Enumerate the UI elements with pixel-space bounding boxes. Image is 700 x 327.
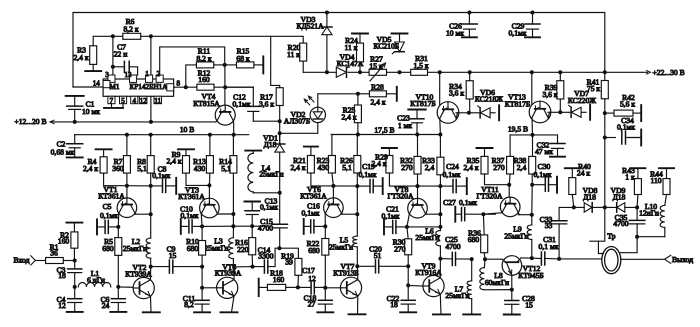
svg-text:15: 15 [525, 300, 533, 309]
label +22...30V [646, 71, 650, 75]
node VT9 base [406, 283, 410, 287]
svg-text:0,1мк: 0,1мк [181, 211, 199, 220]
svg-text:680: 680 [102, 244, 114, 253]
svg-text:Д18: Д18 [583, 192, 596, 201]
wire VT3 emitter [200, 214, 203, 227]
svg-text:2,4 к: 2,4 к [371, 159, 386, 168]
wire VT4 emitter [216, 121, 217, 122]
svg-text:АЛ307Б: АЛ307Б [284, 117, 310, 126]
ground above R4 [96, 148, 112, 150]
resistor R37 [509, 135, 511, 157]
node VT11 collector L9 [530, 213, 534, 217]
transistor VT8 [417, 186, 419, 198]
resistor R33 [439, 135, 441, 158]
svg-text:430: 430 [318, 163, 330, 172]
capacitor C12 [225, 86, 253, 88]
ground above C13 [244, 201, 260, 203]
capacitor C24 [440, 185, 452, 187]
ground left of R18 [258, 279, 260, 297]
svg-text:12нГн: 12нГн [639, 209, 659, 218]
node VT12 collector [530, 256, 534, 260]
zener VD6 [469, 112, 480, 114]
pin 8 [167, 84, 174, 91]
node R25 top [356, 92, 360, 96]
node R38 bottom [530, 183, 534, 187]
resistor R39 [557, 81, 564, 99]
capacitor C8 [151, 185, 162, 187]
node R11 right [223, 63, 227, 67]
svg-text:680: 680 [187, 244, 199, 253]
node VT3 emitter C10 [200, 224, 204, 228]
svg-text:25мкГн: 25мкГн [329, 243, 353, 252]
svg-text:2: 2 [157, 70, 161, 78]
svg-text:0,1мк: 0,1мк [152, 171, 170, 180]
wire VD2 anode [318, 94, 358, 107]
wire 10V rail [75, 134, 249, 136]
node R36 bottom [483, 257, 487, 261]
wire VT8 collector [425, 213, 428, 215]
svg-text:0,1мк: 0,1мк [359, 170, 377, 179]
node VD8 VD9 R41 [603, 205, 607, 209]
svg-text:51: 51 [374, 251, 382, 260]
inductor L9 [531, 215, 533, 225]
capacitor C13 [251, 202, 253, 211]
svg-text:2,4: 2,4 [425, 163, 435, 172]
capacitor C28 [511, 290, 513, 301]
resistor R24 [359, 34, 361, 44]
pin 13 [130, 75, 137, 82]
pin 3 [108, 75, 115, 82]
capacitor C5 [96, 219, 98, 234]
node L6 bus [438, 225, 442, 229]
capacitor C21 [383, 219, 385, 234]
svg-text:8,2 к: 8,2 к [196, 54, 211, 63]
wire emitter bus stage2 [202, 225, 233, 227]
node VT4 10V rail [232, 133, 236, 137]
capacitor C18 [324, 288, 326, 301]
capacitor C19 [357, 185, 369, 187]
wire R12-VT4 base [224, 65, 226, 105]
node VT8 emitter C21 R30 [405, 225, 409, 229]
wire VT6 base to R26 [333, 185, 357, 187]
svg-text:4700: 4700 [613, 219, 628, 228]
svg-text:КТ916А: КТ916А [415, 268, 442, 277]
svg-text:2,4 к: 2,4 к [341, 112, 356, 121]
capacitor C29 [531, 11, 535, 15]
node R11 left column [184, 85, 188, 89]
svg-text:0,1мк: 0,1мк [509, 29, 527, 38]
svg-text:18: 18 [390, 300, 398, 309]
capacitor C9 [151, 266, 169, 268]
wire VT12 base [485, 258, 502, 260]
wire +22...30V top rail [73, 13, 605, 88]
wire VT5 collector [233, 267, 235, 280]
pin 5 [120, 96, 127, 103]
ground under R3 [85, 70, 101, 72]
svg-text:КР142ЕН1А: КР142ЕН1А [130, 83, 169, 91]
wire VT6 collector [341, 213, 344, 216]
ground above R9 [178, 148, 194, 150]
transistor VT1 [126, 186, 128, 198]
node VT5 base [200, 286, 204, 290]
svg-text:Вход: Вход [14, 256, 30, 265]
capacitor C4 [74, 287, 76, 299]
svg-text:0,1мк: 0,1мк [534, 170, 552, 179]
node C9 R10 VT5 base [200, 265, 204, 269]
wire VT7 collector [356, 266, 359, 279]
ground above R24 [352, 33, 368, 35]
node VT7 collector [355, 264, 359, 268]
pin 11 [154, 96, 162, 103]
svg-text:КС218Ж: КС218Ж [475, 95, 503, 104]
node R12 right [223, 85, 227, 89]
capacitor C2 [74, 135, 76, 144]
resistor R18 [259, 286, 268, 288]
node VD1 L4 [278, 191, 282, 195]
inductor L1 [78, 283, 111, 287]
transistor VT3 [208, 185, 210, 198]
svg-text:КТ913Б: КТ913Б [333, 269, 358, 278]
output connector [665, 255, 671, 263]
node R6 bus / C7 column [111, 34, 115, 38]
node VT8 collector [438, 212, 442, 216]
svg-text:2,4 к: 2,4 к [290, 163, 305, 172]
svg-text:24 к: 24 к [577, 169, 590, 178]
svg-text:6 нГн: 6 нГн [87, 275, 105, 284]
svg-text:0,1мк: 0,1мк [100, 211, 118, 220]
node VT8 base [416, 184, 420, 188]
node VT6 collector L5 [355, 212, 359, 216]
inductor L10 [660, 205, 665, 227]
svg-text:24: 24 [102, 301, 110, 310]
svg-text:R28: R28 [371, 83, 384, 92]
svg-text:36: 36 [50, 249, 58, 258]
svg-text:0,1 мк: 0,1 мк [539, 242, 559, 251]
wire VT12 emitter [511, 275, 513, 290]
ground VT5 emitter [221, 311, 238, 313]
wire R8 column down [150, 186, 152, 214]
node VT1 base [125, 184, 129, 188]
capacitor C17 [298, 286, 311, 288]
svg-text:27: 27 [308, 300, 316, 309]
IC M1 KR142EN1A box [103, 79, 174, 96]
inductor L8 [483, 259, 486, 267]
ground VT9 emitter [433, 313, 450, 315]
node L7 top [470, 257, 474, 261]
svg-text:0,1мк: 0,1мк [233, 99, 251, 108]
wire +12...20V rail [50, 121, 216, 123]
resistor R38 [532, 135, 534, 157]
ground above R2 [66, 222, 82, 224]
svg-text:Тр: Тр [607, 231, 615, 240]
svg-text:75 к: 75 к [587, 84, 600, 93]
node R38 rail [531, 133, 535, 137]
resistor R31 [411, 69, 428, 75]
svg-text:360: 360 [112, 164, 124, 173]
wire C12 to R17 column [253, 120, 279, 122]
transistor VT6 [332, 186, 334, 198]
node VT3 collector R14 [231, 212, 235, 216]
svg-text:47 мк: 47 мк [535, 147, 553, 156]
pin 12 [139, 96, 147, 103]
node R8 bottom [149, 184, 153, 188]
node R40 VD8 [572, 205, 576, 209]
ground right of VD7 [589, 105, 591, 120]
svg-text:0,68 мк: 0,68 мк [51, 147, 75, 156]
svg-text:68 к: 68 к [236, 54, 249, 63]
transistor VT4 [215, 105, 235, 125]
svg-text:КТ817Б: КТ817Б [410, 99, 435, 108]
svg-text:11 к: 11 к [287, 50, 300, 59]
resistor R7 [126, 135, 128, 156]
node C31 C33 [557, 257, 561, 261]
resistor R25 [354, 105, 361, 123]
inductor L5 [356, 214, 358, 236]
wire +22...30V mid rail [303, 71, 336, 73]
wire collector to R16 [234, 266, 252, 268]
resistor R16 [251, 226, 253, 238]
capacitor C25 [440, 258, 452, 260]
resistor R20 [271, 36, 304, 43]
capacitor C32 [550, 143, 565, 145]
wire VT8 base to R33 [418, 185, 441, 187]
capacitor C35 [636, 207, 638, 220]
svg-text:ГТ320А: ГТ320А [477, 192, 503, 201]
resistor R30 [407, 227, 408, 239]
resistor R35 [484, 148, 486, 156]
ground above R40 [565, 167, 580, 169]
svg-text:КС220Ж: КС220Ж [568, 96, 596, 105]
node VT11 emitter C27 R36 [481, 212, 485, 216]
transistor VT13 [531, 72, 533, 106]
svg-text:12: 12 [308, 274, 316, 283]
zener VD4 [336, 67, 346, 77]
wire pin8 bus [174, 86, 254, 88]
svg-text:КТ817Б: КТ817Б [505, 99, 530, 108]
svg-text:1: 1 [145, 70, 149, 78]
wire pin12 to +12V rail [150, 96, 152, 122]
ground above R35 [477, 147, 493, 149]
node VT10 base rail [438, 70, 442, 74]
svg-text:0,1мк: 0,1мк [260, 203, 278, 212]
svg-text:680: 680 [468, 235, 480, 244]
ground above R43 [630, 167, 645, 169]
wire VT9 emitter [439, 294, 442, 314]
svg-text:0,1мк: 0,1мк [382, 212, 400, 221]
node R26 bottom [355, 184, 359, 188]
node VT2 base [116, 285, 120, 289]
resistor R17 [276, 88, 283, 106]
svg-text:25мкГн: 25мкГн [259, 169, 283, 178]
capacitor C14 [253, 266, 265, 268]
wire C35 node to transformer [620, 237, 637, 253]
svg-text:2,4 к: 2,4 к [83, 164, 98, 173]
node R39 VD7 [558, 110, 562, 114]
svg-text:Д18: Д18 [613, 192, 626, 201]
node C1 rail [73, 120, 77, 124]
inductor L3 [232, 214, 234, 238]
capacitor C7 [113, 66, 125, 68]
svg-text:5,1: 5,1 [221, 164, 231, 173]
node R41 rail [603, 70, 607, 74]
node VT1 emitter C5 R5 [116, 225, 120, 229]
node VT6 base [331, 184, 335, 188]
node VD5 rail [398, 70, 402, 74]
svg-text:12: 12 [140, 97, 148, 105]
capacitor C6 [117, 287, 119, 299]
resistor R1 [46, 258, 64, 264]
svg-text:17,5 В: 17,5 В [374, 125, 394, 134]
svg-text:Выход: Выход [672, 255, 693, 264]
node R39 rail [558, 70, 562, 74]
node VT7 base [323, 286, 327, 290]
ground right of R28 [396, 87, 398, 101]
wire VT2 emitter [150, 296, 153, 312]
svg-text:5,1: 5,1 [342, 163, 352, 172]
resistor R21 [310, 147, 312, 156]
svg-text:1 к: 1 к [625, 173, 635, 182]
svg-text:15: 15 [169, 251, 177, 260]
capacitor C15 [279, 193, 281, 224]
ground below L7 [463, 313, 480, 315]
wire R30 to VT9 base [407, 266, 409, 285]
svg-text:11 к: 11 к [345, 43, 358, 52]
wire R6 bus [93, 36, 280, 87]
svg-text:КД521А: КД521А [296, 21, 324, 30]
svg-text:22 н: 22 н [114, 50, 128, 59]
ground right of VD6 [498, 105, 500, 120]
svg-text:КТ361А: КТ361А [178, 192, 205, 201]
wire VT10 collector [456, 113, 457, 119]
svg-text:19,5 В: 19,5 В [508, 125, 528, 134]
capacitor C20 [357, 265, 375, 267]
transistor VT12 [502, 256, 522, 276]
node R24 rail [358, 70, 362, 74]
svg-text:18: 18 [58, 271, 66, 280]
resistor R36 [482, 214, 485, 235]
svg-text:160: 160 [198, 75, 210, 84]
wire L4 to VD1 column [253, 192, 279, 194]
svg-text:2,4 к: 2,4 к [463, 163, 478, 172]
wire VT13 collector [548, 112, 549, 118]
transistor VT7 [325, 287, 340, 289]
node R1 R2 C3 [73, 259, 77, 263]
svg-text:+22...30 В: +22...30 В [653, 68, 685, 77]
svg-text:8,2: 8,2 [184, 300, 194, 309]
svg-text:270: 270 [394, 244, 406, 253]
resistor R26 [356, 135, 358, 156]
resistor R43 [637, 168, 639, 178]
transistor VT9 [408, 284, 423, 287]
resistor R10 [201, 226, 203, 240]
wire base node [127, 185, 151, 187]
wire R38 column down [531, 185, 533, 215]
svg-text:10 В: 10 В [180, 125, 195, 134]
svg-text:430: 430 [194, 164, 206, 173]
ground above R44 [659, 167, 674, 169]
svg-text:10 мк: 10 мк [82, 107, 100, 116]
wire VT1 collector [134, 213, 137, 216]
svg-text:4700: 4700 [258, 223, 273, 232]
node R17/C12/VD1 [278, 119, 282, 123]
svg-text:39: 39 [285, 258, 293, 267]
wire emitter bus stage4 [407, 226, 441, 228]
wire 19.5V rail [510, 135, 557, 144]
svg-text:15 к: 15 к [369, 61, 382, 70]
node VD2 column [278, 131, 282, 135]
svg-text:160: 160 [58, 236, 70, 245]
node rail end VT10 emitter [438, 133, 442, 137]
transistor VT11 [508, 185, 510, 197]
svg-text:60мкГн: 60мкГн [485, 278, 509, 287]
svg-text:3,6 к: 3,6 к [449, 89, 464, 98]
svg-text:270: 270 [401, 163, 413, 172]
transformer Tr [602, 247, 621, 274]
svg-text:КТ815А: КТ815А [193, 99, 220, 108]
resistor R15 [225, 64, 237, 66]
node VT5 collector L3 [232, 265, 236, 269]
svg-text:8,2 к: 8,2 к [123, 25, 138, 34]
node R34 rail [468, 70, 472, 74]
svg-text:КС210Б: КС210Б [373, 42, 399, 51]
ground pin 7 [111, 104, 113, 108]
diode VD1 [279, 133, 281, 144]
resistor R29 [388, 148, 390, 156]
wire VT7 emitter [357, 296, 359, 314]
pin 4 [131, 96, 138, 103]
ground right of C19 [382, 178, 384, 194]
resistor R40 [571, 168, 573, 177]
capacitor C26 [467, 11, 471, 15]
svg-text:3,6 к: 3,6 к [542, 90, 557, 99]
svg-text:КТ945Б: КТ945Б [518, 271, 543, 280]
svg-text:160: 160 [273, 275, 285, 284]
svg-text:3,6 к: 3,6 к [259, 99, 274, 108]
svg-text:C5: C5 [103, 202, 112, 211]
capacitor C31 [532, 257, 541, 259]
node VD9 R43 C35 [635, 205, 639, 209]
svg-text:Д18: Д18 [264, 140, 277, 149]
inductor L4 [252, 151, 254, 154]
ground right of R42 [640, 105, 642, 121]
wire R10 to VT5 base [201, 267, 203, 288]
resistor R14 [232, 135, 234, 156]
wire VT3 collector [217, 213, 220, 215]
capacitor C34 [605, 137, 616, 139]
node VT2 collector [149, 265, 153, 269]
capacitor C11 [201, 288, 203, 301]
resistor R22 [324, 226, 326, 238]
svg-text:+12...20 В: +12...20 В [14, 117, 46, 126]
node R8 10V rail [149, 133, 153, 137]
node C15 R19 [277, 246, 281, 250]
pin 2 [156, 75, 163, 82]
node R33 bottom [438, 184, 442, 188]
svg-text:2,4 к: 2,4 к [166, 157, 181, 166]
wire VT11 collector [517, 213, 520, 215]
svg-text:25мкГн: 25мкГн [504, 232, 528, 241]
pin 14 [103, 81, 110, 88]
node VT9 collector L6 [438, 257, 442, 261]
wire VT2 collector [150, 267, 152, 280]
resistor R42 [605, 112, 614, 114]
zener VD7 [560, 111, 571, 113]
inductor L2 [150, 214, 152, 238]
capacitor C23 [408, 109, 426, 111]
capacitor C3 [74, 261, 76, 269]
resistor R41 [604, 72, 606, 80]
svg-text:25мкГн: 25мкГн [204, 244, 228, 253]
